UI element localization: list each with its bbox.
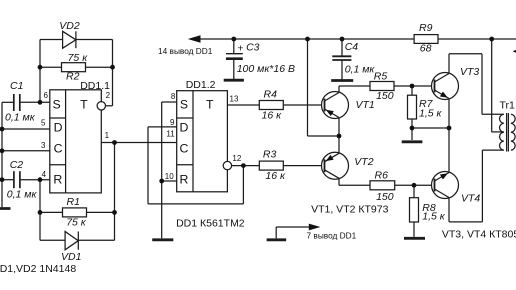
svg-text:D: D — [54, 120, 63, 134]
svg-text:S: S — [180, 98, 188, 112]
svg-text:+: + — [237, 43, 243, 55]
svg-text:R2: R2 — [66, 71, 80, 83]
svg-text:3: 3 — [41, 141, 46, 150]
svg-text:VT2: VT2 — [354, 156, 373, 168]
svg-text:16 к: 16 к — [265, 170, 286, 182]
svg-text:R4: R4 — [264, 89, 278, 101]
svg-text:75 к: 75 к — [66, 216, 87, 228]
svg-text:0,1 мк: 0,1 мк — [7, 189, 38, 201]
svg-text:R: R — [180, 172, 189, 186]
svg-text:T: T — [206, 98, 214, 112]
svg-text:1,5 к: 1,5 к — [422, 211, 446, 223]
svg-text:VT3, VT4 КТ805: VT3, VT4 КТ805 — [442, 229, 516, 241]
svg-text:150: 150 — [376, 191, 394, 203]
svg-text:C: C — [180, 141, 189, 155]
svg-text:VT4: VT4 — [461, 193, 480, 205]
svg-text:68: 68 — [420, 43, 432, 55]
svg-text:5: 5 — [41, 118, 46, 127]
svg-text:4: 4 — [42, 170, 47, 179]
svg-text:14 вывод DD1: 14 вывод DD1 — [158, 46, 213, 56]
svg-text:T: T — [80, 98, 88, 112]
svg-text:C: C — [54, 141, 63, 155]
svg-text:S: S — [52, 98, 60, 112]
svg-text:VT3: VT3 — [460, 66, 479, 78]
svg-text:7 вывод DD1: 7 вывод DD1 — [307, 230, 357, 240]
svg-text:75 к: 75 к — [68, 52, 89, 64]
svg-text:12: 12 — [232, 154, 241, 163]
svg-text:VD1,VD2 1N4148: VD1,VD2 1N4148 — [0, 263, 76, 275]
svg-text:VT1: VT1 — [356, 99, 375, 111]
svg-text:VD2: VD2 — [59, 20, 80, 32]
svg-text:Tr1: Tr1 — [500, 100, 516, 112]
svg-text:1,5 к: 1,5 к — [419, 108, 443, 120]
svg-text:R3: R3 — [263, 148, 277, 160]
svg-text:VT1, VT2 КТ973: VT1, VT2 КТ973 — [311, 204, 388, 216]
svg-text:R9: R9 — [419, 22, 433, 34]
svg-text:0,1 мк: 0,1 мк — [5, 112, 36, 124]
svg-text:VD1: VD1 — [61, 251, 81, 263]
svg-text:DD1.2: DD1.2 — [186, 79, 216, 91]
svg-text:0,1 мк: 0,1 мк — [345, 64, 376, 76]
svg-text:R6: R6 — [375, 169, 389, 181]
svg-text:1: 1 — [105, 131, 110, 140]
svg-text:16 к: 16 к — [262, 109, 283, 121]
svg-text:9: 9 — [170, 118, 175, 127]
svg-text:C1: C1 — [10, 80, 23, 92]
svg-text:C4: C4 — [345, 41, 359, 53]
svg-text:8: 8 — [171, 92, 176, 101]
svg-text:C2: C2 — [10, 159, 24, 171]
svg-text:DD1 К561ТМ2: DD1 К561ТМ2 — [176, 218, 245, 230]
svg-text:150: 150 — [376, 90, 394, 102]
svg-text:6: 6 — [43, 91, 48, 100]
svg-text:100 мк*16 В: 100 мк*16 В — [237, 63, 295, 75]
svg-text:C3: C3 — [246, 41, 260, 53]
svg-text:11: 11 — [166, 130, 175, 139]
svg-text:R5: R5 — [374, 70, 388, 82]
svg-text:D: D — [180, 120, 189, 134]
svg-text:10: 10 — [165, 172, 174, 181]
svg-text:2: 2 — [106, 91, 111, 100]
svg-text:R: R — [53, 172, 62, 186]
svg-text:R1: R1 — [67, 196, 80, 208]
svg-text:13: 13 — [230, 95, 239, 104]
